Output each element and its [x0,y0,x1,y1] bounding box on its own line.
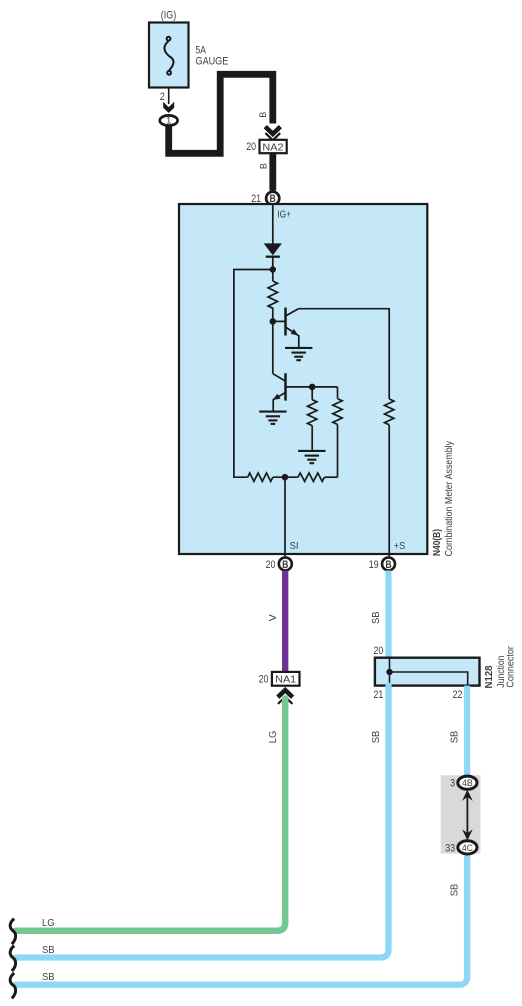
junction dot in N128 [386,669,392,675]
wire SB (pin 19 down to N128) [385,571,391,658]
pin 21 circle B [266,192,279,205]
svg-text:B: B [258,112,268,118]
svg-text:33: 33 [445,842,455,854]
wire SB (N128 pin 22 down to 4B) [464,686,470,779]
resistor R3 (vertical) [333,399,342,425]
resistor R5 (horizontal, right) [298,473,324,481]
Q2 base wire right to resistors [286,386,338,388]
svg-text:SB: SB [449,884,461,897]
junction node dot (IG+ branch) [270,266,276,272]
N128 internal bus [390,658,468,686]
connector terminal 1 (ellipse) [160,115,178,125]
fuse box [149,23,189,88]
svg-text:4C: 4C [462,843,473,854]
svg-text:19: 19 [369,559,379,571]
junction dot SI [282,474,289,481]
svg-text:SB: SB [42,944,55,956]
svg-text:N128: N128 [484,665,495,688]
wire to Q1 base [273,320,286,322]
svg-text:20: 20 [374,645,384,657]
wire R5 to R3 corner [324,476,337,478]
connector 4B (ellipse) [458,776,477,789]
svg-text:N40(B): N40(B) [431,529,443,556]
wire to R2 [311,387,313,400]
connector arrows into NA2 (double chevron down) [265,127,280,134]
svg-text:Combination Meter Assembly: Combination Meter Assembly [443,440,455,556]
svg-text:20: 20 [259,674,269,686]
svg-text:20: 20 [266,559,276,571]
wire R2 to ground [311,426,313,451]
svg-text:20: 20 [246,141,256,153]
svg-text:LG: LG [267,731,279,744]
svg-text:B: B [282,559,288,571]
wire break squiggle (LG) [10,919,15,944]
wire SB (4C down and left) [16,850,468,985]
svg-text:+S: +S [394,540,406,552]
svg-text:LG: LG [42,917,55,929]
junction dot on base wire [309,384,316,391]
svg-text:(IG): (IG) [161,10,176,22]
resistor R1 (vertical, below diode) [268,281,277,308]
wire left branch down to bottom resistor row [234,270,273,478]
transistor Q2 [273,373,286,411]
connector arrow (female, down) [163,102,174,113]
svg-text:22: 22 [453,689,463,701]
arrow between 4B and 4C [466,795,468,835]
svg-text:NA2: NA2 [262,141,283,153]
svg-text:IG+: IG+ [277,208,291,220]
wire break squiggle (SB middle) [10,946,15,971]
wire R1 to Q1 base junction [272,308,274,322]
svg-text:B: B [259,163,269,169]
fuse F1 5A GAUGE symbol [164,37,173,75]
wire SB (N128 pin 21 down and left) [16,686,389,958]
wire diode to junction [272,257,274,281]
junction dot at Q1 base branch [270,318,277,325]
combination meter assembly box N40(B) [179,204,427,554]
wire corner into R3 [337,387,339,399]
svg-text:SB: SB [370,611,382,624]
svg-text:21: 21 [374,689,384,701]
wire R3 down to bottom row [337,425,339,478]
resistor R6 (right rail, vertical) [385,399,394,425]
connector NA2 [260,140,287,153]
svg-text:SB: SB [370,731,382,744]
transistor Q1 [286,308,299,348]
ground (Q1 emitter) [285,348,312,360]
svg-text:NA1: NA1 [275,674,296,686]
resistor R2 (vertical) [308,400,317,426]
svg-text:V: V [267,614,279,621]
svg-text:B: B [385,559,391,571]
connector arrows below NA1 (double chevron up) [278,690,293,697]
Q1 collector wire to right rail [298,309,389,399]
wire R6 down to pin 19 [388,425,390,556]
svg-text:2: 2 [160,91,165,103]
wire LG (green) NA1 down and left [16,699,286,931]
wire IG+ into diode [272,204,274,244]
svg-text:SI: SI [290,540,299,552]
wire Q1 base junction down to Q2 collector [272,321,274,373]
connector 4C (ellipse) [458,841,477,854]
pin 19 circle B [382,557,395,570]
junction connector N128 box [375,658,480,686]
diode D1 [264,243,282,255]
svg-text:4B: 4B [462,778,473,789]
wire break squiggle (SB bottom) [10,973,15,998]
ground (Q2 emitter) [259,412,286,424]
thick wire from terminal 1 to NA2 [169,74,273,153]
svg-text:SB: SB [449,731,461,744]
svg-text:GAUGE: GAUGE [196,56,229,68]
resistor R4 (horizontal, left) [248,473,273,481]
thick wire NA2 to pin 21 [269,153,276,190]
svg-text:Connector: Connector [506,646,517,688]
pin 20 circle B [279,557,292,570]
ground (R2) [298,451,325,463]
wire between resistors [273,476,298,478]
connector NA1 [272,672,300,686]
svg-text:3: 3 [450,778,455,790]
wire SI junction down to pin 20 [284,477,286,556]
splice block (gray) [441,775,481,853]
svg-text:SB: SB [42,971,55,983]
wire V (purple) pin 20 to NA1 [282,571,288,672]
wire from fuse to arrow [168,88,170,105]
